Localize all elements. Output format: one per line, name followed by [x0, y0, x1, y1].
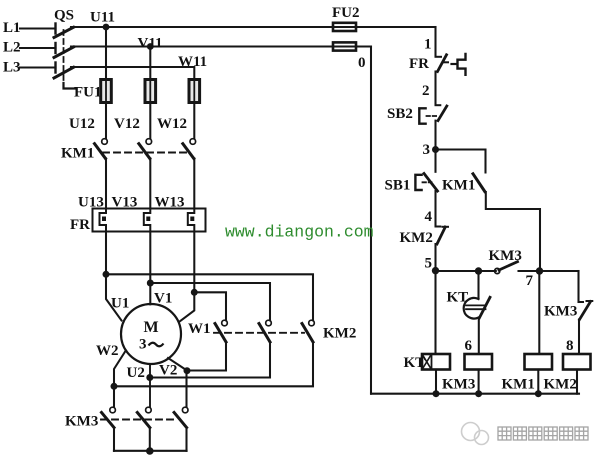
pushbutton SB2 NC stop — [436, 104, 441, 106]
wire node5 to KT coil — [434, 271, 436, 354]
disconnect switch QS pole 2 blade — [54, 47, 74, 58]
wire segment node3-4 — [434, 191, 436, 226]
wire U13 segment — [105, 159, 107, 209]
wire KM1 aux to node 7 — [486, 192, 540, 271]
wire L2 lead-in — [20, 47, 56, 49]
svg-text:4: 4 — [425, 209, 433, 225]
wire KM1 coil to bar — [537, 370, 539, 394]
svg-text:V1: V1 — [154, 291, 172, 307]
wire KT contact to KM3 coil — [478, 318, 480, 354]
wire KM2 contact1 return to V2 — [187, 342, 226, 371]
node V11 junction dot — [147, 43, 154, 50]
svg-text:KT: KT — [404, 355, 426, 371]
logo text 电工电气学习 — [498, 427, 588, 440]
wire phase W11 third row — [71, 67, 194, 80]
fuse FU1 element 2 — [145, 80, 156, 103]
svg-text:U2: U2 — [127, 365, 145, 381]
wire right branch down — [577, 271, 579, 302]
contactor KM2 main contact 1 — [222, 320, 228, 326]
node KT branch dot — [475, 267, 482, 274]
thermal relay FR heater box — [93, 209, 206, 232]
wire L1 lead-in — [20, 27, 56, 29]
wire star point bottom bar — [114, 450, 187, 452]
wire motor U2 terminal — [149, 364, 151, 407]
wire phase V11 second row — [71, 45, 371, 47]
wire U12 segment — [105, 103, 107, 139]
wire V11 column to fuse — [149, 47, 151, 80]
motor tilde mark — [149, 343, 164, 347]
svg-text:KM1: KM1 — [502, 377, 535, 393]
node star point dot — [146, 447, 154, 455]
svg-text:KM2: KM2 — [323, 326, 356, 342]
wire col2 below FR to motor V1 — [149, 232, 151, 305]
contactor KM1 coil — [525, 354, 553, 370]
svg-text:L1: L1 — [3, 20, 21, 36]
svg-text:M: M — [144, 319, 159, 336]
node U2 junction dot — [146, 374, 153, 381]
wire feed to KM2 contact 3 — [106, 274, 313, 320]
svg-text:SB1: SB1 — [385, 178, 411, 194]
svg-text:KM3: KM3 — [442, 377, 475, 393]
wire segment node1-2 — [434, 72, 436, 105]
contactor KM2 main contact 3 — [309, 320, 315, 326]
disconnect switch QS pole 3 fixed jaw — [54, 63, 56, 73]
contactor KM2 NC interlock — [436, 226, 441, 228]
contactor KM3 NC interlock right — [580, 302, 591, 320]
svg-text:L3: L3 — [3, 60, 21, 76]
time relay KT delayed NO contact — [477, 271, 479, 297]
node 5 junction dot — [432, 267, 439, 274]
wire branch node3 to KM1 aux — [436, 150, 486, 173]
wire control bottom bar — [371, 393, 579, 395]
node W2 junction dot — [111, 383, 118, 390]
contactor KM3 coil — [465, 354, 493, 370]
QS linkage hook to FU1 — [64, 83, 77, 89]
wire control hot rail down from L1 — [434, 27, 436, 56]
svg-text:V13: V13 — [112, 195, 138, 211]
contactor KM1 main contact 1 — [102, 139, 108, 145]
node V2 junction dot — [184, 367, 191, 374]
svg-text:QS: QS — [54, 8, 74, 24]
wire col1 below FR — [106, 232, 122, 321]
svg-text:SB2: SB2 — [387, 106, 413, 122]
wire node7 to KM1 coil — [538, 271, 540, 354]
contactor KM1 main contact 2 — [146, 139, 152, 145]
pushbutton SB1 NO start — [434, 150, 436, 172]
KM3 linkage dashed — [101, 419, 176, 421]
svg-text:W13: W13 — [155, 195, 185, 211]
svg-text:U11: U11 — [90, 10, 115, 26]
node 3 junction dot — [432, 146, 439, 153]
svg-text:KM3: KM3 — [489, 248, 522, 264]
KM1 linkage dashed — [103, 152, 190, 154]
svg-text:W11: W11 — [178, 54, 207, 70]
FR manual reset symbol — [452, 63, 457, 65]
disconnect switch QS pole 1 blade — [54, 27, 74, 37]
svg-text:W1: W1 — [188, 321, 211, 337]
node bar dot KM3 — [475, 390, 482, 397]
wire V12 segment — [149, 103, 151, 139]
wire feed to KM2 contact 2 — [150, 283, 270, 320]
contactor KM1 main contact 3 — [190, 139, 196, 145]
svg-text:FU1: FU1 — [74, 85, 102, 101]
svg-text:2: 2 — [422, 83, 430, 99]
wire motor W2 terminal — [114, 351, 126, 408]
motor M 3~ stator circle — [121, 304, 181, 364]
wire phase U11 top row — [71, 26, 436, 28]
contactor KM3 main contact 3 — [182, 407, 188, 413]
contactor KM2 coil — [563, 354, 591, 370]
contactor KM2 main contact 2 — [266, 320, 272, 326]
wire KT coil to bar — [435, 370, 437, 394]
svg-text:V2: V2 — [159, 363, 177, 379]
svg-text:1: 1 — [424, 37, 432, 53]
wire KM2 contact2 return to U2 — [150, 342, 270, 378]
svg-text:7: 7 — [526, 273, 534, 289]
node 7 junction dot — [536, 267, 543, 274]
FR heater element 2 — [144, 209, 151, 232]
fuse FU2 element 2 — [333, 42, 356, 50]
svg-text:3: 3 — [139, 337, 147, 353]
svg-text:6: 6 — [465, 338, 473, 354]
svg-text:0: 0 — [358, 55, 366, 71]
node bar dot KM1 — [535, 390, 542, 397]
contactor KM1 aux NO contact — [473, 174, 485, 192]
time relay KT coil — [422, 354, 450, 370]
svg-text:W12: W12 — [157, 116, 187, 132]
KM2 linkage dashed — [214, 332, 304, 334]
svg-text:www.diangon.com: www.diangon.com — [225, 223, 374, 242]
svg-text:KM3: KM3 — [544, 304, 577, 320]
fuse FU1 element 3 — [189, 80, 200, 103]
svg-text:U12: U12 — [69, 116, 95, 132]
wire segment to node5 — [434, 244, 436, 271]
fuse FU2 element 1 — [333, 23, 356, 31]
thermal relay FR NC contact — [436, 56, 442, 58]
wire segment to node 3 — [434, 121, 436, 150]
FR heater element 1 — [100, 209, 107, 232]
svg-text:KT: KT — [447, 290, 469, 306]
svg-text:V11: V11 — [138, 36, 163, 52]
wire KM2 contact3 return to W2 — [114, 342, 313, 386]
wire motor V2 terminal — [168, 358, 187, 407]
svg-text:KM2: KM2 — [400, 230, 433, 246]
svg-text:5: 5 — [425, 255, 433, 271]
node U11 junction dot — [103, 24, 110, 31]
node col1 junction dot — [103, 271, 110, 278]
wire W12 segment — [193, 103, 195, 139]
node col3 junction dot — [191, 289, 198, 296]
wire neutral 0 rail — [370, 47, 372, 394]
wire KM2 coil to bar — [576, 370, 578, 394]
wire W13 segment — [193, 159, 195, 209]
svg-text:KM2: KM2 — [544, 377, 577, 393]
wire node5 horizontal to right branch — [436, 270, 579, 272]
fuse FU1 element 1 — [101, 80, 112, 103]
wire col3 below FR — [179, 232, 194, 323]
contactor KM3 NO self-hold contact — [495, 268, 500, 273]
wire KM3 coil to bar — [478, 370, 480, 394]
svg-text:U13: U13 — [78, 195, 104, 211]
wire U11 column to fuse — [105, 27, 107, 80]
node col2 junction dot — [147, 280, 154, 287]
svg-text:FU2: FU2 — [332, 5, 360, 21]
svg-text:W2: W2 — [96, 343, 119, 359]
svg-text:8: 8 — [566, 338, 574, 354]
wire node8 to KM2 coil — [578, 320, 580, 355]
logo icon — [462, 423, 489, 445]
QS mechanical linkage dashed — [63, 30, 65, 83]
contactor KM3 main contact 1 — [110, 407, 116, 413]
wire KM3 star point bars — [114, 428, 187, 451]
disconnect switch QS pole 2 fixed jaw — [54, 43, 56, 53]
svg-text:L2: L2 — [3, 40, 21, 56]
svg-text:3: 3 — [423, 142, 431, 158]
svg-text:KM1: KM1 — [61, 146, 94, 162]
node bar dot KT — [433, 390, 440, 397]
wire L3 lead-in — [20, 66, 56, 68]
svg-text:KM3: KM3 — [65, 414, 98, 430]
disconnect switch QS pole 3 blade — [54, 67, 74, 78]
svg-text:V12: V12 — [114, 116, 140, 132]
disconnect switch QS pole 1 fixed jaw — [54, 24, 56, 34]
svg-text:FR: FR — [409, 56, 429, 72]
svg-text:KM1: KM1 — [442, 178, 475, 194]
wire feed to KM2 contact 1 — [194, 292, 226, 320]
wire V13 segment — [149, 159, 151, 209]
FR heater element 3 — [188, 209, 195, 232]
svg-text:FR: FR — [70, 217, 90, 233]
contactor KM3 main contact 2 — [146, 407, 152, 413]
svg-text:U1: U1 — [111, 296, 129, 312]
